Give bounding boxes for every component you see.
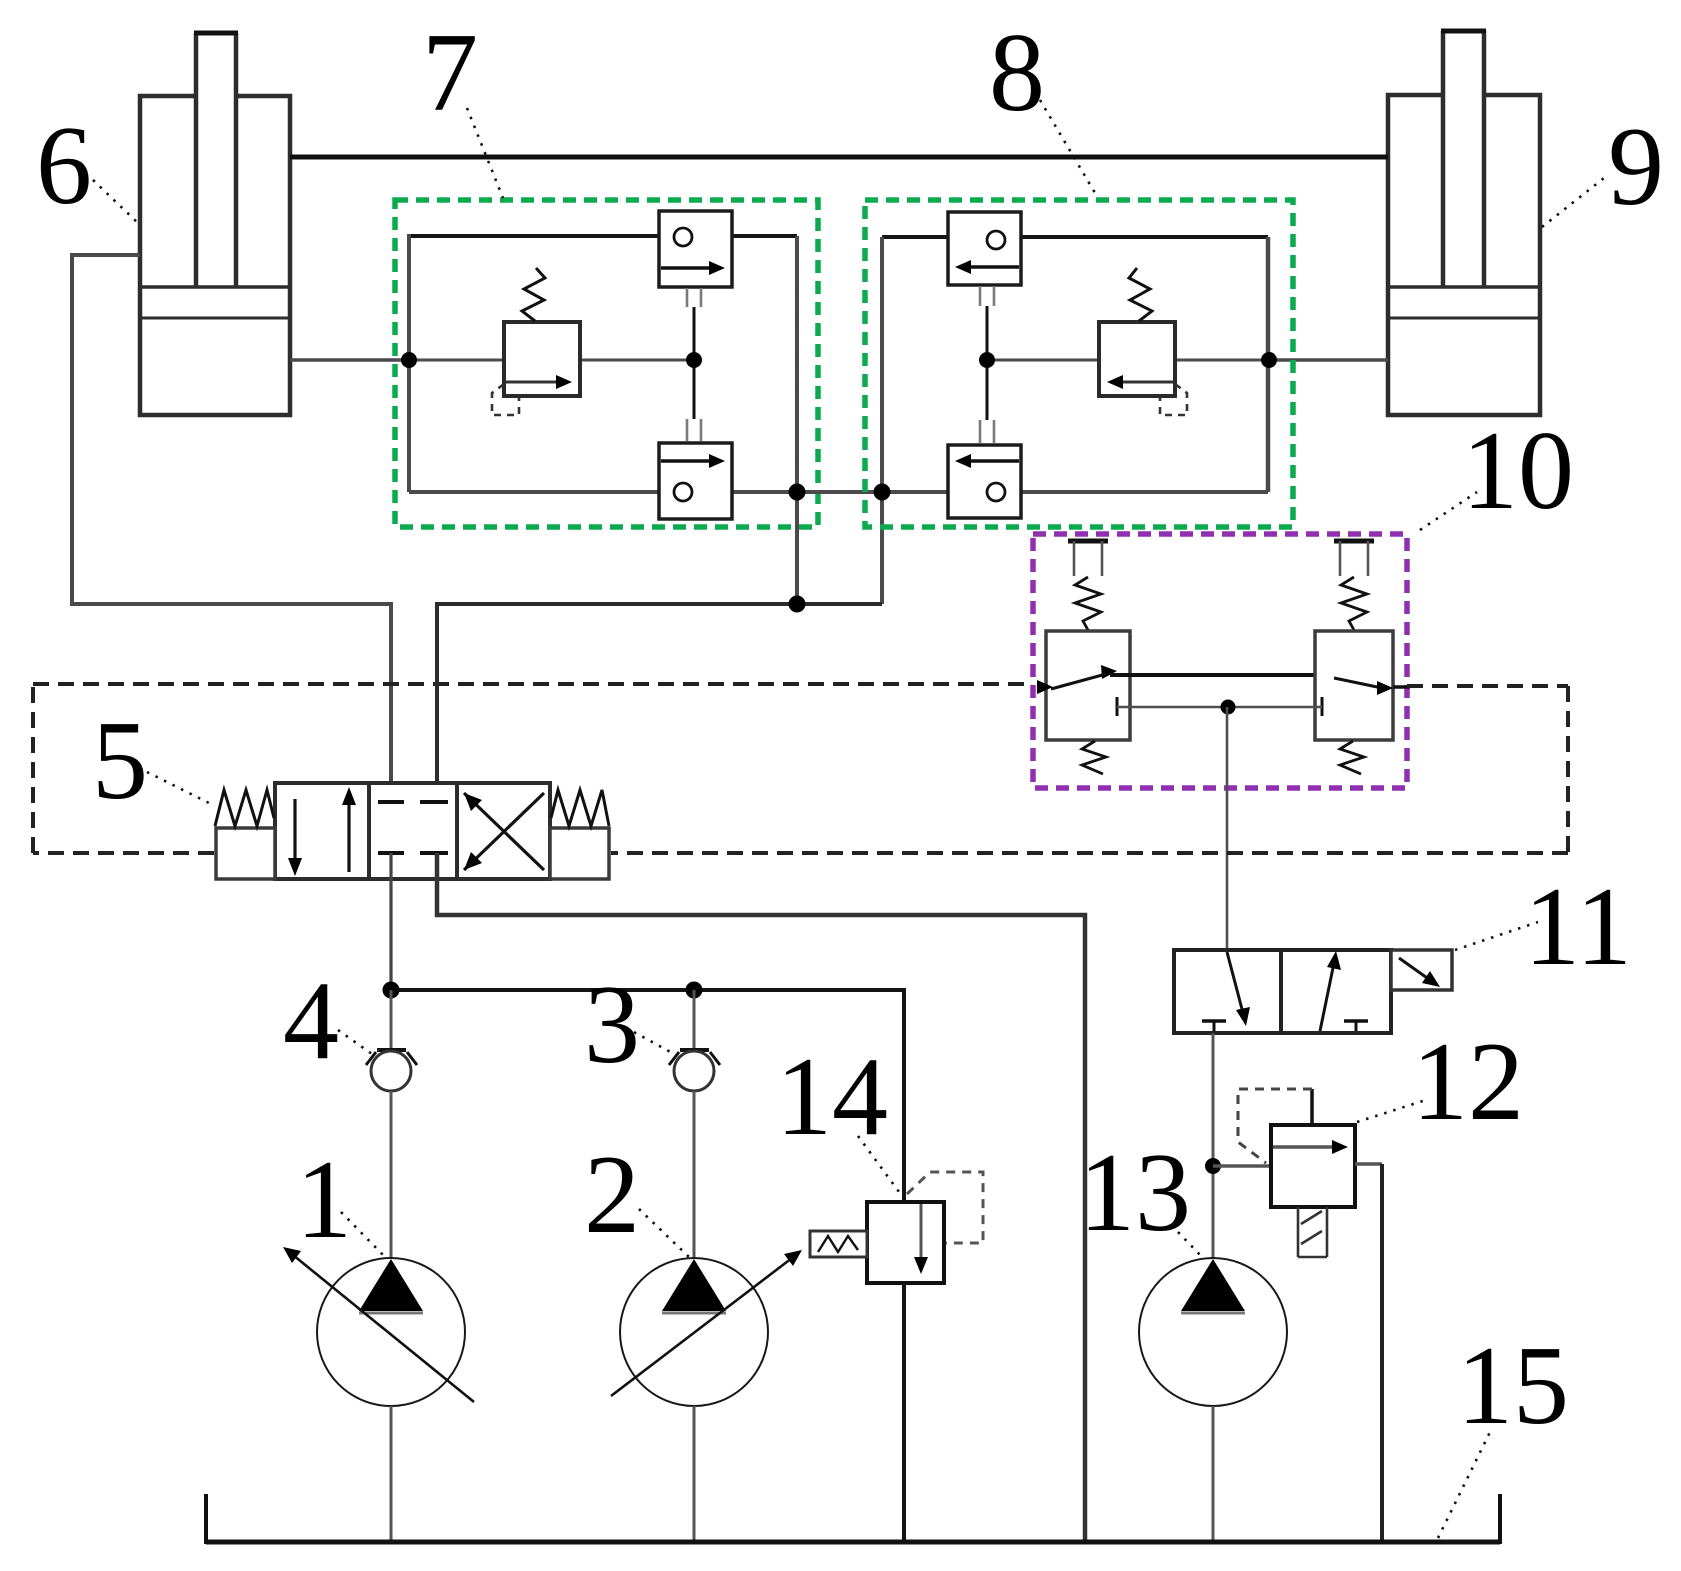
bottom line block7/block8 [409,490,1268,494]
svg-text:6: 6 [36,104,92,228]
junction node pump2 [686,982,703,999]
stem above check 8b [980,420,994,443]
wire cylinder6 base-port to block7 [290,358,409,362]
hydraulic cylinder 6 [140,33,290,415]
svg-text:5: 5 [92,699,148,823]
svg-text:15: 15 [1457,1324,1569,1448]
svg-text:13: 13 [1079,1131,1191,1255]
svg-text:11: 11 [1524,865,1632,989]
wire valve11 to pump13 [1212,1033,1215,1262]
stem between check 7a and pilot node [687,288,701,307]
svg-text:10: 10 [1462,409,1574,533]
wire valve5 port T return to tank [437,853,1085,1542]
wire through line block 10 [1110,673,1322,677]
block 7 inner top line [409,234,797,238]
block 8 inner top line [882,235,1268,239]
wire pilot 10 down to valve 11 [1226,707,1229,950]
wire top interconnect [290,155,1388,160]
variable pump 2 [611,1250,802,1542]
wire valve14 to tank [902,1283,906,1542]
fixed pump 13 [1139,1258,1287,1542]
wire stub purple valve to manifold dashes [1393,685,1410,689]
manifold boundary (black dashed) [33,684,1568,853]
junction node outlets [789,596,806,613]
svg-text:8: 8 [989,11,1045,135]
wire node to check7b [693,360,696,419]
svg-text:12: 12 [1412,1020,1524,1144]
svg-text:3: 3 [584,963,640,1087]
check valve 7a (top, block 7) [659,211,732,287]
block 7 inner left leg [407,234,411,492]
check valve 8a (top, block 8) [948,212,1021,285]
counterbalance block 7 boundary (green dashed) [395,200,818,527]
counterbalance block 8 boundary (green dashed) [865,200,1293,527]
valve 11 [1174,950,1452,1033]
junction node block7 left [401,352,417,368]
check valve 3 [669,990,720,1260]
block 7 inner right leg [795,236,799,604]
check valve 4 [366,990,417,1260]
relief valve 12 [1213,1089,1382,1257]
wire block8 to cylinder9 base-port [1268,358,1388,362]
svg-text:2: 2 [584,1133,640,1257]
directional control valve 5 [215,783,609,879]
pilot check valve 10R [1315,541,1393,774]
wire valve5 port A down [389,853,392,990]
wire cylinder6 rod-port to valve5 port A [72,255,391,802]
wire pump supply header [391,990,904,1202]
check valve 7b (bottom, block 7) [659,443,732,519]
junction node block8 pilot [979,352,995,368]
wire check8a to node [986,306,989,360]
tank 15 [206,1494,1500,1544]
stem above check 7b [687,419,701,441]
variable pump 1 [283,1247,474,1542]
svg-text:9: 9 [1608,105,1664,229]
svg-text:1: 1 [296,1138,352,1262]
junction node block8 outlet [874,484,891,501]
wire node to check8b [986,360,989,420]
junction node valve12 inlet [1205,1158,1221,1174]
block 8 inner left leg [880,237,884,604]
svg-text:4: 4 [283,959,339,1083]
junction node pump1 [383,982,400,999]
junction node block8 right [1261,352,1277,368]
pilot check block 10 boundary (purple dashed) [1033,534,1407,788]
wire check7a to node [693,307,696,360]
pilot line block 10 [1117,706,1322,709]
block 8 inner right leg [1266,237,1271,492]
stem below check 8a [980,286,994,306]
junction node pilot 10 [1221,700,1236,715]
svg-text:7: 7 [422,11,478,135]
check valve 8b (bottom, block 8) [948,445,1021,518]
pilot check valve 10L [1037,541,1130,774]
pressure valve 14 [810,1172,983,1283]
wire valve12 to tank [1380,1164,1384,1542]
junction node block7 pilot [686,352,702,368]
hydraulic cylinder 9 [1388,31,1540,415]
counterbalance relief valve (block 8) [987,268,1268,415]
wire block outlets to valve5 port B [437,604,882,802]
counterbalance relief valve (block 7) [409,268,694,415]
junction node block7 outlet [789,484,806,501]
svg-text:14: 14 [776,1035,888,1159]
